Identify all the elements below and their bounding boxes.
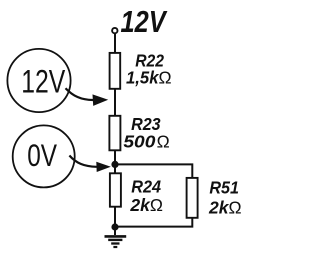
probe balloon 0V — [13, 125, 75, 187]
arrow 0V probe — [69, 156, 110, 173]
svg-text:1,5k: 1,5k — [126, 67, 160, 87]
probe balloon 12V — [7, 49, 70, 112]
wire R24 to ground junction — [114, 207, 116, 235]
resistor R23 — [109, 116, 120, 151]
svg-text:2k: 2k — [129, 195, 151, 215]
wire R23 to R24 — [114, 150, 116, 173]
svg-text:12V: 12V — [121, 5, 168, 39]
svg-text:2k: 2k — [208, 198, 230, 218]
svg-text:Ω: Ω — [159, 67, 172, 87]
terminal node (open circle) — [112, 28, 117, 33]
svg-text:0V: 0V — [27, 137, 57, 173]
wire R51 to node B — [115, 218, 192, 227]
junction node B — [111, 223, 118, 230]
svg-text:12V: 12V — [21, 63, 65, 99]
wire terminal to R22 — [114, 33, 116, 53]
resistor R24 — [110, 173, 121, 206]
wire branch node A to R51 — [115, 164, 192, 178]
junction node A — [111, 161, 118, 168]
svg-text:R24: R24 — [131, 177, 161, 197]
svg-text:Ω: Ω — [157, 131, 170, 151]
wire R22 to R23 — [114, 89, 116, 116]
resistor R51 — [187, 178, 198, 218]
ground — [105, 236, 127, 247]
svg-text:R51: R51 — [209, 178, 239, 198]
svg-text:Ω: Ω — [229, 198, 242, 218]
svg-text:500: 500 — [123, 131, 155, 151]
svg-text:Ω: Ω — [150, 195, 163, 215]
arrow 12V probe — [66, 88, 109, 106]
resistor R22 — [110, 53, 121, 89]
